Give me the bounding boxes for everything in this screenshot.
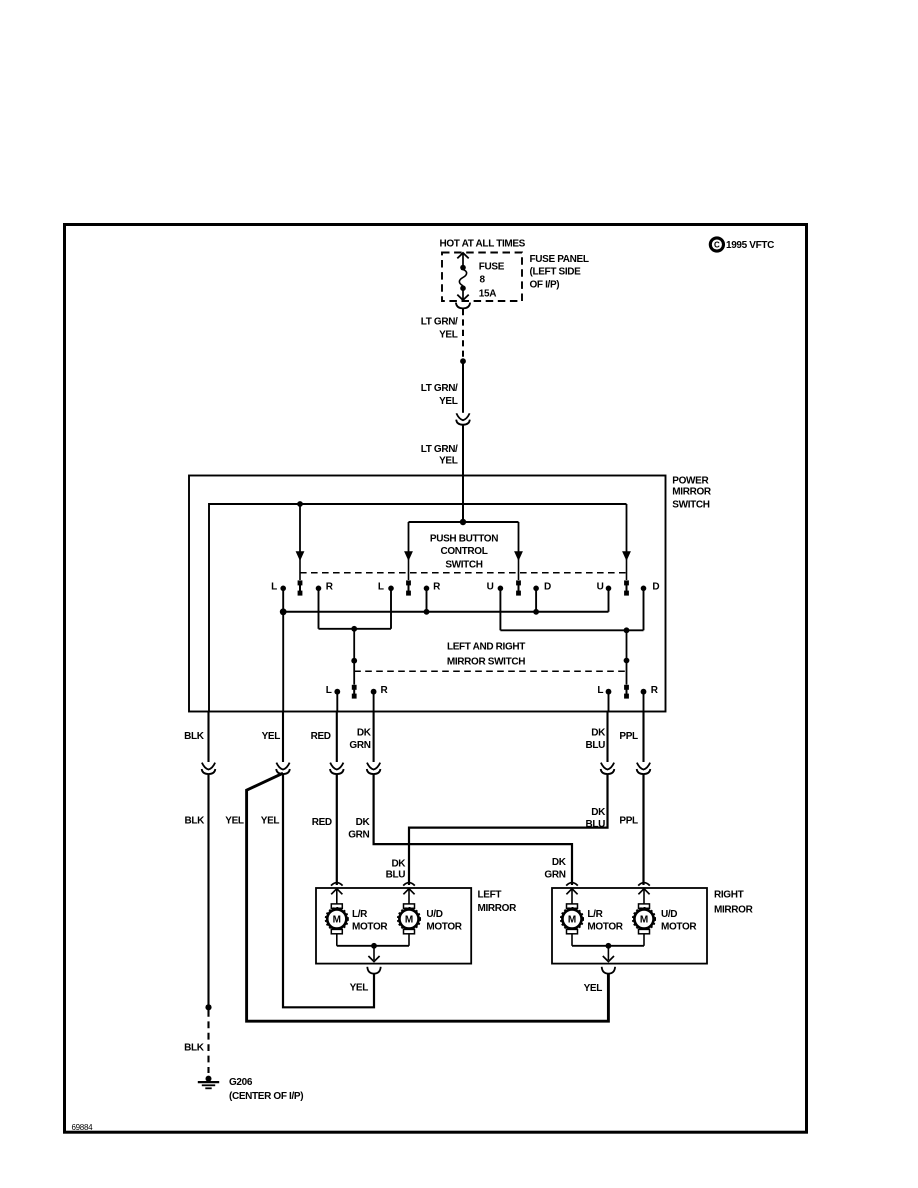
wire bus to left-right mirror switch (right) bbox=[500, 629, 643, 631]
svg-text:M: M bbox=[405, 915, 413, 926]
svg-text:U/D: U/D bbox=[661, 909, 677, 920]
svg-text:MIRROR: MIRROR bbox=[478, 903, 518, 914]
svg-text:U/D: U/D bbox=[426, 909, 442, 920]
label RIGHT MIRROR bbox=[714, 889, 754, 915]
wire bus A (ground side, inside switch) bbox=[209, 504, 627, 712]
wire BLK (connector to splice) bbox=[207, 774, 209, 1007]
svg-text:R: R bbox=[433, 582, 441, 593]
node main feed joins bus B bbox=[460, 519, 466, 525]
node common bus / YEL bbox=[280, 608, 287, 615]
connector arc at left mirror U/D terminal bbox=[403, 883, 415, 886]
svg-text:DK: DK bbox=[391, 858, 406, 869]
switch pole P3 (up/down) wiper arm bbox=[514, 522, 523, 596]
wire PPL (switch to connector) bbox=[642, 712, 644, 763]
svg-text:LT GRN/: LT GRN/ bbox=[421, 444, 458, 455]
wire pole1-L to YEL output bbox=[282, 589, 284, 712]
svg-text:HOT AT ALL TIMES: HOT AT ALL TIMES bbox=[440, 239, 526, 250]
svg-text:8: 8 bbox=[480, 275, 486, 286]
left mirror output arrow bbox=[368, 946, 379, 962]
svg-text:DK: DK bbox=[591, 727, 606, 738]
svg-text:YEL: YEL bbox=[439, 396, 458, 407]
contact labels L R L R U D U D bbox=[271, 582, 659, 593]
svg-text:FUSE: FUSE bbox=[479, 261, 505, 272]
switch pole P4 (up/down) wiper arm bbox=[622, 504, 631, 596]
label DK BLU bbox=[585, 727, 606, 751]
svg-text:69884: 69884 bbox=[72, 1123, 94, 1132]
right mirror U/D motor U/D bbox=[633, 889, 655, 946]
svg-text:DK: DK bbox=[552, 857, 567, 868]
splice S1 bbox=[460, 358, 466, 364]
switch pole P1 (left mirror L/R) wiper arm bbox=[296, 504, 305, 596]
svg-text:BLK: BLK bbox=[184, 731, 205, 742]
wire DK GRN (switch to connector) bbox=[373, 712, 375, 763]
svg-text:YEL: YEL bbox=[225, 816, 244, 827]
svg-text:DK: DK bbox=[591, 807, 606, 818]
svg-text:MOTOR: MOTOR bbox=[661, 922, 697, 933]
svg-text:POWER: POWER bbox=[672, 476, 709, 487]
svg-text:YEL: YEL bbox=[261, 816, 280, 827]
lower-right mirror switch wiper bbox=[624, 630, 630, 698]
svg-text:BLU: BLU bbox=[585, 740, 605, 751]
label LT GRN/YEL 3 bbox=[421, 444, 458, 467]
svg-text:L: L bbox=[378, 582, 384, 593]
label L/R MOTOR (right) bbox=[587, 909, 623, 933]
switch pole P2 (left mirror L/R) wiper arm bbox=[404, 522, 413, 596]
svg-text:D: D bbox=[652, 582, 659, 593]
svg-text:BLK: BLK bbox=[184, 816, 205, 827]
svg-text:GRN: GRN bbox=[349, 740, 370, 751]
svg-text:MOTOR: MOTOR bbox=[587, 922, 623, 933]
svg-text:YEL: YEL bbox=[350, 982, 369, 993]
svg-text:R: R bbox=[651, 685, 659, 696]
connector arc at right mirror L/R terminal bbox=[566, 883, 578, 886]
svg-text:GRN: GRN bbox=[544, 869, 565, 880]
wire pole4-D down bbox=[643, 589, 645, 630]
lower switch contact terminals bbox=[334, 689, 646, 695]
left mirror box bbox=[316, 888, 471, 964]
svg-text:L: L bbox=[326, 685, 332, 696]
wire BLK (switch to connector) bbox=[207, 712, 209, 763]
dashed mechanical link (left-right mirror switch) bbox=[354, 670, 626, 672]
wire LT GRN/YEL (splice to connector) bbox=[462, 361, 464, 413]
label DK GRN row2 bbox=[348, 817, 370, 840]
svg-text:U: U bbox=[487, 582, 494, 593]
svg-text:G206: G206 bbox=[229, 1077, 253, 1088]
wire LT GRN/YEL dashed (fuse to splice) bbox=[462, 309, 464, 358]
in-line connector (DK GRN) bbox=[367, 763, 381, 774]
label LT GRN/YEL 1 bbox=[421, 317, 458, 341]
label U/D MOTOR (right) bbox=[661, 909, 697, 933]
splice BLK S2 bbox=[205, 1004, 211, 1010]
wire YEL branch to right mirror (thick) bbox=[247, 773, 609, 1021]
wire pole3-D to common bus bbox=[535, 589, 537, 612]
label POWER MIRROR SWITCH bbox=[672, 476, 712, 511]
wire BLK dashed (splice to ground) bbox=[207, 1010, 209, 1073]
wire right mirror common bbox=[572, 945, 644, 947]
fuse panel dashed box bbox=[442, 253, 522, 302]
node common bus / pole3-D bbox=[533, 609, 539, 615]
wire LT GRN/YEL (connector to switch) bbox=[462, 425, 464, 522]
label L/R MOTOR (left) bbox=[352, 909, 388, 933]
svg-text:R: R bbox=[326, 582, 334, 593]
lower switch contact labels bbox=[326, 685, 659, 696]
label U/D MOTOR (left) bbox=[426, 909, 462, 933]
svg-text:PUSH BUTTON: PUSH BUTTON bbox=[430, 534, 498, 545]
node lower-right switch feed bbox=[624, 627, 630, 633]
svg-text:M: M bbox=[640, 915, 648, 926]
wire DK BLU (connector to left mirror, crossover) bbox=[409, 774, 608, 885]
label G206 (CENTER OF I/P) bbox=[229, 1077, 303, 1102]
svg-text:OF I/P): OF I/P) bbox=[530, 279, 560, 290]
svg-text:YEL: YEL bbox=[584, 983, 603, 994]
wire lower-right R to PPL bbox=[643, 693, 645, 712]
svg-text:DK: DK bbox=[356, 817, 371, 828]
right mirror L/R motor L/R bbox=[561, 889, 583, 946]
node left mirror common bbox=[371, 943, 377, 949]
connector cup below right mirror bbox=[602, 967, 615, 974]
svg-text:BLK: BLK bbox=[184, 1043, 205, 1054]
wire bus to left-right mirror switch (left) bbox=[319, 628, 392, 630]
label DK GRN at right mirror bbox=[544, 857, 566, 880]
svg-text:(LEFT SIDE: (LEFT SIDE bbox=[530, 267, 582, 278]
wire left mirror common bbox=[337, 945, 409, 947]
label LT GRN/YEL 2 bbox=[421, 383, 458, 407]
in-line connector (RED) bbox=[330, 763, 344, 774]
node common bus / pole2-R bbox=[424, 609, 430, 615]
svg-text:LT GRN/: LT GRN/ bbox=[421, 317, 458, 328]
wire DK BLU (switch to connector) bbox=[606, 712, 608, 763]
svg-text:LEFT AND RIGHT: LEFT AND RIGHT bbox=[447, 642, 525, 653]
svg-text:RED: RED bbox=[311, 731, 331, 742]
svg-text:SWITCH: SWITCH bbox=[445, 560, 482, 571]
switch contact terminals row 1 bbox=[280, 586, 646, 592]
svg-text:C: C bbox=[714, 241, 720, 250]
svg-text:M: M bbox=[568, 915, 576, 926]
svg-text:LEFT: LEFT bbox=[478, 890, 502, 901]
svg-text:PPL: PPL bbox=[619, 731, 638, 742]
svg-text:GRN: GRN bbox=[348, 830, 369, 841]
wire RED (switch to connector) bbox=[336, 712, 338, 763]
in-line connector C1 bbox=[456, 413, 470, 424]
connector cup below fuse panel bbox=[456, 303, 470, 309]
wire lower-right L to DK BLU bbox=[608, 693, 610, 712]
svg-text:MOTOR: MOTOR bbox=[352, 922, 388, 933]
svg-text:D: D bbox=[544, 582, 551, 593]
left mirror U/D motor U/D bbox=[398, 889, 420, 946]
wire YEL (switch to connector) bbox=[282, 712, 284, 763]
svg-text:L/R: L/R bbox=[587, 909, 603, 920]
svg-text:MIRROR SWITCH: MIRROR SWITCH bbox=[447, 657, 525, 668]
wire pole4-U to common bus bbox=[608, 589, 610, 612]
copyright symbol 1995 VFTC bbox=[710, 238, 774, 251]
svg-text:YEL: YEL bbox=[439, 330, 458, 341]
wire bus B (feed, inside switch) bbox=[409, 521, 519, 523]
svg-text:FUSE PANEL: FUSE PANEL bbox=[530, 254, 589, 265]
right mirror box bbox=[552, 888, 707, 964]
svg-text:L: L bbox=[271, 582, 277, 593]
svg-text:SWITCH: SWITCH bbox=[672, 499, 709, 510]
wire PPL (connector to right mirror) bbox=[642, 774, 644, 885]
label DK GRN bbox=[349, 727, 371, 751]
connector arc at left mirror L/R terminal bbox=[331, 883, 343, 886]
svg-text:RED: RED bbox=[312, 817, 332, 828]
svg-text:YEL: YEL bbox=[439, 456, 458, 467]
label PUSH BUTTON CONTROL SWITCH bbox=[430, 534, 498, 571]
dashed mechanical link (push button poles) bbox=[300, 572, 627, 574]
in-line connector (PPL) bbox=[637, 763, 651, 774]
svg-text:DK: DK bbox=[357, 727, 372, 738]
wire pole1-R down bbox=[318, 589, 320, 629]
svg-text:BLU: BLU bbox=[386, 870, 406, 881]
svg-text:(CENTER OF I/P): (CENTER OF I/P) bbox=[229, 1091, 303, 1102]
fuse value labels bbox=[479, 261, 505, 299]
label LEFT MIRROR bbox=[478, 890, 518, 914]
svg-text:L: L bbox=[597, 685, 603, 696]
wire pole3-U down bbox=[499, 589, 501, 630]
svg-text:L/R: L/R bbox=[352, 909, 368, 920]
svg-text:MIRROR: MIRROR bbox=[714, 904, 754, 915]
node on bus A at pole 1 bbox=[297, 501, 303, 507]
wire pole2-R to common bus bbox=[426, 589, 428, 612]
svg-text:1995 VFTC: 1995 VFTC bbox=[726, 240, 774, 251]
in-line connector (DK BLU) bbox=[601, 763, 615, 774]
power mirror switch box bbox=[189, 476, 666, 712]
label DK BLU at left mirror bbox=[386, 858, 407, 880]
svg-text:MIRROR: MIRROR bbox=[672, 486, 712, 497]
lower-left mirror switch wiper bbox=[351, 629, 357, 699]
wire YEL (connector down to left mirror run) bbox=[283, 774, 374, 1007]
svg-text:M: M bbox=[333, 915, 341, 926]
left mirror L/R motor L/R bbox=[326, 889, 348, 946]
wire common bus bbox=[283, 611, 608, 613]
node lower-left switch feed bbox=[351, 626, 357, 632]
svg-text:15A: 15A bbox=[479, 289, 496, 300]
svg-text:YEL: YEL bbox=[262, 731, 281, 742]
svg-text:LT GRN/: LT GRN/ bbox=[421, 383, 458, 394]
wire lower-left R to DK GRN bbox=[373, 693, 375, 712]
wire RED (connector to left mirror) bbox=[336, 774, 338, 885]
svg-text:BLU: BLU bbox=[585, 819, 605, 830]
wire DK GRN (connector to right mirror, crossover) bbox=[374, 774, 572, 885]
label LEFT AND RIGHT MIRROR SWITCH bbox=[447, 642, 525, 668]
svg-text:MOTOR: MOTOR bbox=[426, 922, 462, 933]
label FUSE PANEL (LEFT SIDE OF I/P) bbox=[530, 254, 589, 290]
node right mirror common bbox=[606, 943, 612, 949]
svg-text:PPL: PPL bbox=[619, 816, 638, 827]
svg-text:R: R bbox=[380, 685, 388, 696]
ground G206 bbox=[198, 1076, 219, 1089]
svg-text:RIGHT: RIGHT bbox=[714, 889, 744, 900]
wire pole2-L down bbox=[390, 589, 392, 629]
in-line connector (YEL) bbox=[276, 763, 290, 774]
connector arc at right mirror U/D terminal bbox=[638, 883, 650, 886]
svg-text:CONTROL: CONTROL bbox=[441, 546, 488, 557]
fuse F8 15A bbox=[457, 253, 468, 300]
in-line connector (BLK) bbox=[202, 763, 216, 774]
right mirror output arrow bbox=[603, 946, 614, 962]
label DK BLU row2 bbox=[585, 807, 606, 830]
svg-text:U: U bbox=[597, 582, 604, 593]
wire lower-left L to RED bbox=[336, 693, 338, 712]
connector cup below left mirror bbox=[367, 967, 380, 974]
